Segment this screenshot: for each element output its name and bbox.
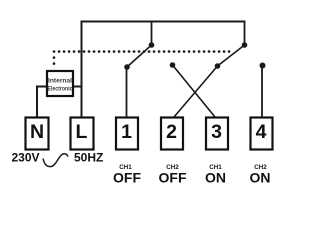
CH2 switch arm (closed on OFF contact) xyxy=(218,45,245,66)
svg-text:50HZ: 50HZ xyxy=(74,151,103,165)
top rail wire (L feed) xyxy=(81,21,246,23)
svg-text:ON: ON xyxy=(250,170,271,186)
wire CH2 OFF contact to terminal 2 (crossing) xyxy=(174,66,218,117)
CH2 OFF contact dot xyxy=(215,63,221,69)
dotted control linkage vertical to internal electronics xyxy=(53,58,56,70)
svg-text:3: 3 xyxy=(211,121,222,143)
terminal L box xyxy=(71,118,94,150)
CH1 OFF contact dot xyxy=(124,64,130,70)
terminal 4 box xyxy=(251,118,273,150)
svg-text:OFF: OFF xyxy=(113,170,141,186)
CH2 switch pivot junction dot xyxy=(242,42,248,48)
wire from terminal L up to top rail xyxy=(81,21,83,117)
wire CH1 OFF contact down to terminal 1 xyxy=(126,67,128,117)
CH1 switch arm (closed on OFF contact) xyxy=(127,45,152,67)
CH1 switch pivot junction dot xyxy=(149,42,155,48)
dotted control linkage horizontal xyxy=(54,50,230,53)
svg-text:4: 4 xyxy=(256,121,267,143)
CH2 ON contact dot xyxy=(260,63,266,69)
svg-text:2: 2 xyxy=(166,121,177,143)
svg-text:OFF: OFF xyxy=(159,170,187,186)
wire drop from top rail to CH1 switch pivot xyxy=(151,21,153,45)
svg-text:N: N xyxy=(30,121,44,143)
svg-text:L: L xyxy=(76,121,88,143)
wire CH2 ON contact down to terminal 4 xyxy=(261,66,263,117)
terminal 3 box xyxy=(206,118,228,150)
wire drop from top rail to CH2 switch pivot xyxy=(244,21,246,45)
wire terminal N up and right to internal electronics xyxy=(37,87,46,118)
CH1 ON contact dot xyxy=(170,62,176,68)
AC sine symbol xyxy=(43,154,68,167)
svg-text:230V: 230V xyxy=(12,151,40,165)
svg-text:1: 1 xyxy=(121,121,132,143)
wire internal electronics to L wire xyxy=(74,86,83,88)
svg-text:Electronic: Electronic xyxy=(48,87,74,93)
svg-text:ON: ON xyxy=(205,170,226,186)
terminal 2 box xyxy=(161,118,183,150)
svg-text:Internal: Internal xyxy=(48,79,72,85)
terminal N box xyxy=(26,118,49,150)
wire CH1 ON contact to terminal 3 (crossing) xyxy=(173,65,216,117)
internal electronics box xyxy=(47,71,73,96)
terminal 1 box xyxy=(116,118,138,150)
